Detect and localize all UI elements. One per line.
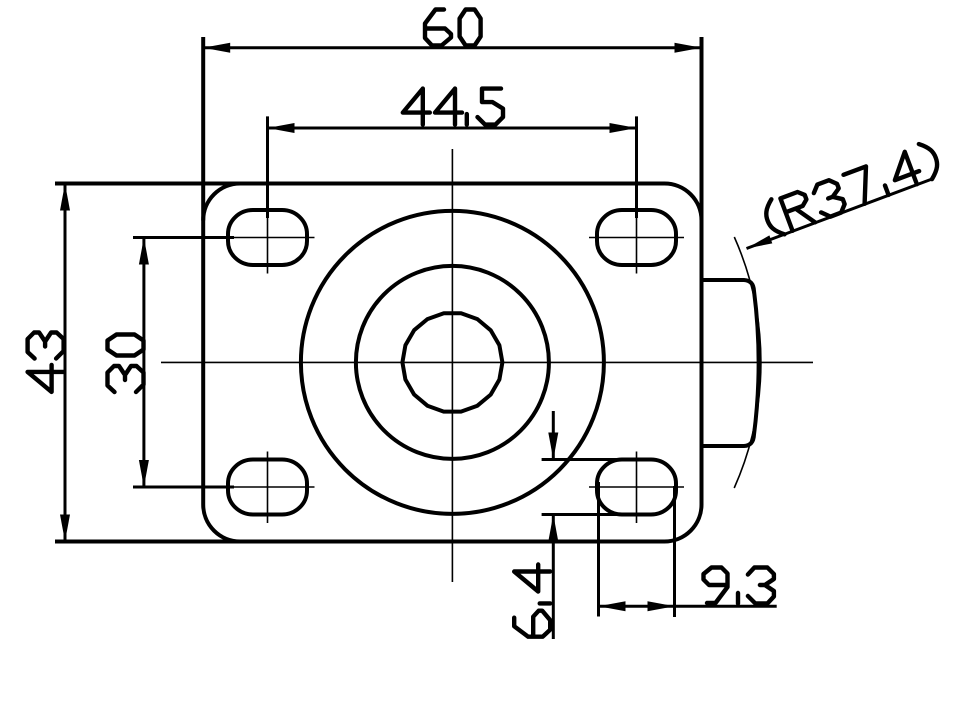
dimension 44.5 extension line right [635,116,638,218]
dimension 9.3 arrow left [599,601,626,611]
slot centerline cross top-left [267,200,269,274]
dimension 6.4 line upper [552,411,555,460]
mounting slot bottom-right [597,460,676,515]
mounting slot top-left [228,210,307,265]
dimension 6.4 arrow down [548,433,558,460]
mounting slot top-right [597,210,676,265]
dimension 44.5 arrow right [610,123,637,133]
leader arrowhead R37.4 [747,235,773,248]
dimension 43 text [28,365,64,392]
dimension 30 line [142,238,145,488]
dimension 9.3 arrow right [648,601,675,611]
plate corner arc bottom-right [665,505,702,542]
slot centerline cross top-right [636,200,638,274]
dimension 30 extension line top [133,236,234,239]
plate corner arc top-left [203,184,240,221]
dimension 30 arrow top [139,238,149,265]
dimension 30 text [108,366,144,392]
dimension 44.5 line [268,127,637,130]
middle circle [356,266,549,459]
dimension 43 arrow top [60,184,70,211]
dimension 9.3 line [599,605,777,608]
plate bottom edge with left extension line [55,540,665,544]
dimension 60 arrow left [203,43,230,53]
plate corner arc top-right [665,184,702,221]
dimension 6.4 extension line bottom [542,513,621,516]
dimension 30 extension line bottom [133,486,234,489]
dimension 43 arrow bottom [60,515,70,542]
outer circle swivel race [301,211,604,514]
horizontal centerline [161,361,813,363]
dimension 9.3 extension line left [597,482,600,617]
dimension 60 line [203,46,701,49]
dimension 30 arrow bottom [139,460,149,487]
plate left edge with top extension line [201,37,205,505]
dimension 44.5 extension line left [266,116,269,218]
plate right edge with top extension line [700,37,704,505]
dimension 6.4 text [514,611,550,637]
inner circle kingpin hole [402,313,502,411]
slot centerline cross bottom-left [267,452,269,524]
leader text (R37,4) [761,199,784,238]
plate top edge with left extension line [55,182,665,186]
slot centerline cross bottom-right [636,452,638,524]
dimension 60 text [425,10,451,46]
dimension 6.4 arrow up [548,515,558,542]
dimension 9.3 text [704,568,728,604]
dimension 6.4 line lower [552,515,555,640]
vertical centerline [451,149,453,582]
swivel boss profile right side [702,280,759,446]
dimension 6.4 extension line top [542,458,621,461]
plate corner arc bottom-left [203,505,240,542]
dimension 60 arrow right [675,43,702,53]
leader line R37.4 [747,179,933,249]
dimension 44.5 arrow left [268,123,295,133]
dimension 43 line [64,184,67,542]
dimension 44.5 text [403,89,430,125]
dimension 9.3 extension line right [673,486,676,617]
mounting slot bottom-left [228,460,307,515]
R37.4 arc [734,237,761,488]
